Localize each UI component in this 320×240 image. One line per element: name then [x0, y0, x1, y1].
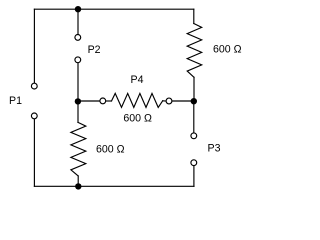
- svg-text:600 Ω: 600 Ω: [213, 44, 242, 56]
- resistor 600Ω left body: [71, 122, 86, 176]
- junction dot bottom rail / left resistor: [75, 183, 81, 189]
- wire left rail lower: [33, 119, 35, 187]
- terminal P1 lower circle: [31, 113, 37, 119]
- junction dot middle right node: [191, 98, 197, 104]
- svg-text:P4: P4: [131, 74, 144, 86]
- terminal P4 left circle: [100, 98, 106, 104]
- terminal P4 right circle: [166, 98, 172, 104]
- wire P4 right lead: [163, 100, 166, 102]
- svg-text:600 Ω: 600 Ω: [96, 144, 125, 156]
- wire P2 stub lower: [77, 63, 79, 101]
- wire P2 stub upper: [77, 9, 79, 34]
- terminal P3 upper circle: [191, 133, 197, 139]
- wire right rail bottom (P3 lower terminal to bottom rail): [193, 166, 195, 187]
- wire right rail mid (resistor to junction): [193, 77, 195, 101]
- resistor 600Ω right body: [187, 24, 202, 78]
- junction dot top rail / P2 branch: [75, 6, 81, 12]
- wire top rail: [34, 8, 193, 10]
- svg-text:P2: P2: [88, 44, 101, 56]
- terminal P3 lower circle: [191, 160, 197, 166]
- terminal P2 lower circle: [75, 57, 81, 63]
- wire right rail top: [193, 9, 195, 23]
- svg-text:600 Ω: 600 Ω: [123, 112, 152, 124]
- wire P4 left lead: [106, 100, 112, 102]
- terminal P1 upper circle: [31, 83, 37, 89]
- wire left resistor top lead: [77, 101, 79, 122]
- terminal P2 upper circle: [75, 35, 81, 41]
- wire middle right (P4 right terminal to junction): [172, 100, 194, 102]
- wire left rail upper: [33, 9, 35, 83]
- wire middle left (junction to P4 left terminal): [78, 100, 100, 102]
- svg-text:P3: P3: [208, 143, 221, 155]
- wire right rail to P3 upper terminal: [193, 101, 195, 133]
- junction dot middle left node: [75, 98, 81, 104]
- svg-text:P1: P1: [9, 95, 22, 107]
- wire left resistor bottom lead: [77, 176, 79, 186]
- resistor P4 600Ω body: [112, 93, 163, 107]
- wire bottom rail: [34, 185, 194, 187]
